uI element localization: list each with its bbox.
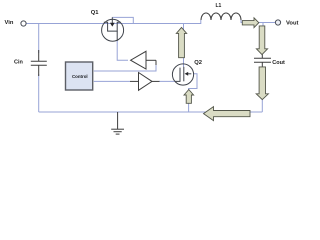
node Vin label <box>5 20 14 26</box>
wire: lower driver output to Q2 gate <box>159 80 175 82</box>
wire: bottom ground rail <box>39 111 263 113</box>
transistor Q2 label <box>194 60 202 66</box>
wire: Q1 gate to upper driver output <box>117 41 128 60</box>
control block <box>66 62 93 90</box>
wire: Vout node drop to Cout branch <box>262 23 264 30</box>
capacitor Cout label <box>272 60 285 66</box>
wire: L1 output to Vout <box>241 20 275 23</box>
capacitor Cout <box>254 52 271 68</box>
transistor Q2 <box>172 64 193 85</box>
svg-text:Cin: Cin <box>14 60 24 66</box>
svg-text:Cout: Cout <box>272 60 285 66</box>
svg-text:Q1: Q1 <box>91 10 100 16</box>
wire: control lower output to lower driver input <box>94 80 130 82</box>
ground <box>111 112 124 134</box>
wire: Q1 gate loop above rail <box>112 17 133 23</box>
transistor Q1 <box>102 17 124 41</box>
svg-text:Vout: Vout <box>286 20 299 26</box>
wire: Q2 source loop to bottom rail <box>189 74 197 112</box>
node Vout label <box>286 20 299 26</box>
wire: Cin branch lower <box>38 74 40 112</box>
svg-text:Control: Control <box>72 74 88 79</box>
inductor L1 <box>201 13 241 20</box>
wire: control upper output to upper driver input <box>94 64 156 71</box>
wire: top rail from Vin to L1 <box>26 20 201 24</box>
op-amp U2 lower gate driver (points right) <box>130 73 160 91</box>
current arrow down below Cout <box>256 67 268 100</box>
current arrow left along bottom rail <box>204 107 251 121</box>
node Vin terminal <box>21 21 26 26</box>
current arrow down above Cout <box>256 26 267 55</box>
current arrow up below Q2 <box>184 90 194 104</box>
svg-text:Q2: Q2 <box>194 60 202 66</box>
capacitor Cin <box>31 50 47 76</box>
transistor Q1 label <box>91 10 100 16</box>
wire: switch node vertical to Q2 drain <box>183 24 185 68</box>
inductor L1 label <box>216 3 222 9</box>
current arrow right to Vout <box>242 18 258 28</box>
node Vout terminal <box>275 20 280 25</box>
svg-text:L1: L1 <box>216 3 222 9</box>
current arrow up at switch node <box>176 27 186 57</box>
wire: Cout branch lower segment to bottom rail <box>261 96 263 112</box>
op-amp U1 upper gate driver (points left) <box>131 51 156 69</box>
wire: Cin branch upper <box>38 24 40 54</box>
svg-text:Vin: Vin <box>5 20 14 26</box>
capacitor Cin label <box>14 60 24 66</box>
